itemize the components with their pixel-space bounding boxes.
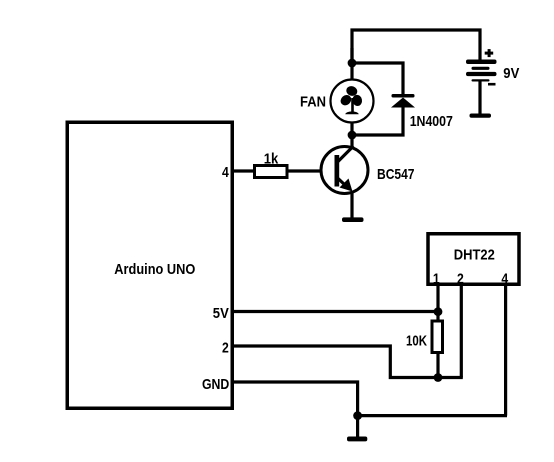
svg-text:10K: 10K [406, 332, 427, 349]
svg-text:Arduino UNO: Arduino UNO [114, 261, 195, 278]
svg-text:2: 2 [457, 271, 464, 288]
svg-text:GND: GND [202, 376, 229, 393]
svg-text:FAN: FAN [300, 94, 326, 111]
svg-text:DHT22: DHT22 [454, 246, 495, 263]
svg-text:1k: 1k [264, 150, 279, 167]
svg-text:BC547: BC547 [377, 166, 415, 183]
svg-text:2: 2 [222, 339, 229, 356]
svg-text:4: 4 [222, 164, 229, 181]
svg-text:5V: 5V [213, 305, 229, 322]
svg-text:9V: 9V [503, 65, 519, 82]
svg-text:1N4007: 1N4007 [410, 113, 453, 130]
svg-text:4: 4 [501, 271, 508, 288]
svg-text:1: 1 [433, 271, 440, 288]
